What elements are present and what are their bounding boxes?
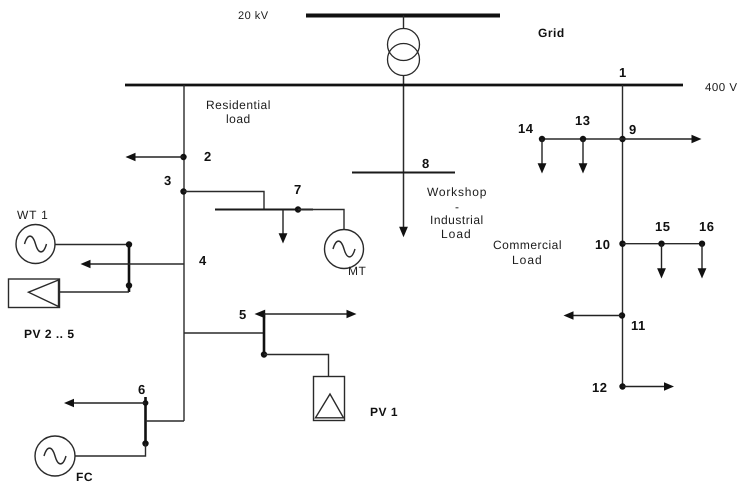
bus node 8 bbox=[352, 172, 455, 174]
node 16 junction bbox=[699, 241, 705, 247]
bus node 7 bbox=[215, 209, 313, 211]
svg-text:3: 3 bbox=[164, 173, 172, 188]
svg-text:14: 14 bbox=[518, 121, 534, 136]
svg-text:400 V: 400 V bbox=[705, 82, 738, 94]
load arrow at node 13 bbox=[579, 139, 588, 174]
node 7 junction bbox=[295, 206, 301, 212]
svg-text:Load: Load bbox=[512, 253, 543, 267]
load arrow at node 2 bbox=[126, 153, 184, 162]
wire WT 1 to node 4 bar bbox=[55, 244, 129, 246]
svg-text:MT: MT bbox=[348, 264, 366, 278]
generator FC (fuel cell) bbox=[35, 436, 75, 476]
svg-text:16: 16 bbox=[699, 219, 714, 234]
generator PV 2..5 bbox=[9, 279, 60, 308]
svg-text:Load: Load bbox=[441, 227, 472, 241]
svg-text:Residential: Residential bbox=[206, 98, 271, 112]
node 2 junction bbox=[180, 154, 186, 160]
junction dot node 6 top bbox=[143, 400, 149, 406]
junction dot WT bbox=[126, 241, 132, 247]
node 14 junction bbox=[539, 136, 545, 142]
svg-text:Commercial: Commercial bbox=[493, 238, 562, 252]
wire commercial feeder (nodes 9-10-11-12) bbox=[622, 85, 624, 387]
svg-text:2: 2 bbox=[204, 149, 212, 164]
svg-text:1: 1 bbox=[619, 65, 627, 80]
load arrow at node 15 bbox=[657, 244, 666, 279]
node 12 junction bbox=[619, 383, 625, 389]
bus 400 V (LV busbar, node 1) bbox=[125, 84, 683, 87]
svg-text:Grid: Grid bbox=[538, 26, 565, 40]
bus node 6 bar bbox=[144, 397, 147, 444]
svg-text:13: 13 bbox=[575, 113, 590, 128]
svg-text:FC: FC bbox=[76, 470, 93, 484]
svg-text:5: 5 bbox=[239, 307, 247, 322]
svg-text:PV 1: PV 1 bbox=[370, 405, 398, 419]
wire node 9 to nodes 13 14 bbox=[542, 138, 623, 140]
wire node 4 bar to feeder bbox=[129, 263, 184, 265]
node 13 junction bbox=[580, 136, 586, 142]
wire node 7 to MT bbox=[298, 210, 344, 230]
load arrow at node 5 bbox=[255, 310, 357, 319]
svg-text:WT 1: WT 1 bbox=[17, 208, 49, 222]
generator PV 1 bbox=[314, 377, 345, 421]
svg-text:7: 7 bbox=[294, 182, 302, 197]
node 11 junction bbox=[619, 312, 625, 318]
svg-text:9: 9 bbox=[629, 122, 637, 137]
load arrow at node 6 bbox=[64, 399, 146, 408]
load arrow at node 11 bbox=[564, 311, 623, 320]
svg-text:8: 8 bbox=[422, 156, 430, 171]
node 3 junction bbox=[180, 188, 186, 194]
load arrow at node 12 bbox=[623, 382, 675, 391]
bus 20 kV (MV busbar) bbox=[306, 14, 500, 18]
load arrow at node 16 bbox=[698, 244, 707, 279]
load arrow at node 4 bbox=[81, 260, 130, 269]
generator MT (micro turbine) bbox=[325, 230, 364, 269]
wire residential feeder (nodes 2-3-4-5-6) bbox=[183, 85, 185, 421]
load arrow at node 14 bbox=[538, 139, 547, 174]
label Workshop Industrial Load bbox=[427, 185, 487, 241]
transformer T1 bbox=[388, 29, 420, 76]
svg-text:PV 2 .. 5: PV 2 .. 5 bbox=[24, 327, 75, 341]
svg-text:4: 4 bbox=[199, 253, 207, 268]
wire PV 2..5 to node 4 bar bbox=[60, 291, 130, 293]
svg-text:15: 15 bbox=[655, 219, 670, 234]
svg-text:-: - bbox=[455, 200, 460, 214]
wire node 5 to PV 1 bbox=[264, 355, 329, 377]
junction dot PV bbox=[126, 282, 132, 288]
label Commercial Load bbox=[493, 238, 562, 267]
node 15 junction bbox=[658, 241, 664, 247]
wire transformer secondary to node 8 feeder bbox=[403, 76, 405, 228]
junction dot node 5 bottom bbox=[261, 351, 267, 357]
svg-text:load: load bbox=[226, 112, 251, 126]
svg-text:20 kV: 20 kV bbox=[238, 10, 269, 22]
svg-text:6: 6 bbox=[138, 382, 146, 397]
load arrow at node 8 bbox=[399, 227, 408, 237]
node 9 junction bbox=[619, 136, 625, 142]
generator WT 1 (wind turbine) bbox=[16, 225, 55, 264]
wire node 6 bar to feeder bbox=[146, 420, 185, 422]
junction dot node 6 bottom bbox=[142, 440, 148, 446]
svg-text:12: 12 bbox=[592, 380, 607, 395]
bus node 4 bar bbox=[128, 243, 131, 292]
wire transformer primary bbox=[403, 16, 405, 30]
wire feeder to node 5 bar bbox=[184, 332, 264, 334]
wire FC to node 6 bar bbox=[75, 444, 146, 457]
bus node 5 bar bbox=[263, 313, 266, 355]
node 10 junction bbox=[619, 241, 625, 247]
load arrow on node 7 bus bbox=[279, 210, 288, 244]
load arrow at node 9 bbox=[623, 135, 702, 144]
wire node 10 to nodes 15 16 bbox=[623, 243, 703, 245]
wire node 3 to node 7 bus bbox=[184, 192, 265, 210]
svg-text:10: 10 bbox=[595, 237, 610, 252]
svg-text:Industrial: Industrial bbox=[430, 213, 484, 227]
svg-text:11: 11 bbox=[631, 318, 646, 333]
svg-text:Workshop: Workshop bbox=[427, 185, 487, 199]
